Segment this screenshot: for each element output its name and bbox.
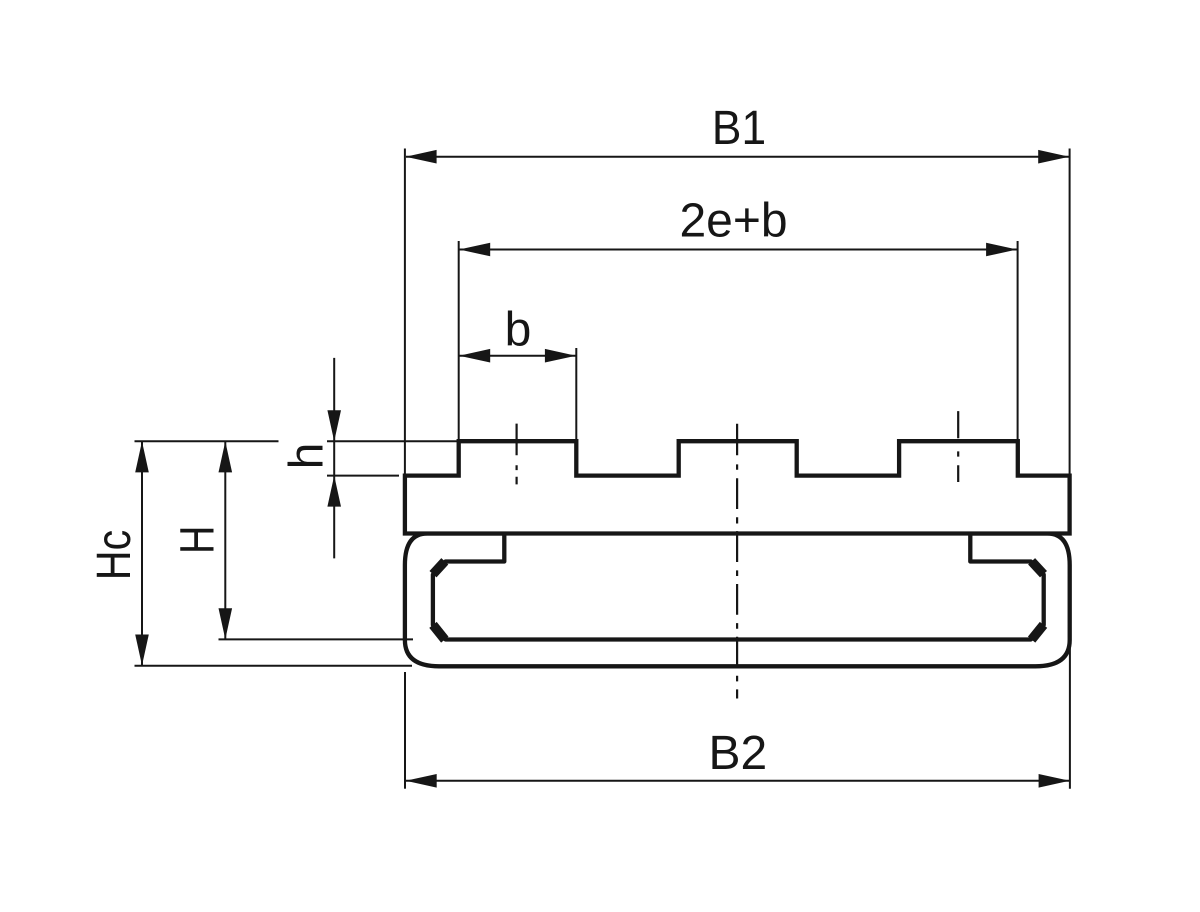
channel inner fillet wedge top-left bbox=[433, 561, 445, 574]
dimension 2e+b arrowhead right bbox=[986, 243, 1017, 257]
dimension H extension line bottom bbox=[219, 638, 414, 640]
centerline middle (tooth 2 / profile axis) bbox=[736, 424, 738, 699]
dimension 2e+b extension line right bbox=[1017, 241, 1019, 441]
channel inner fillet wedge top-right bbox=[1032, 561, 1044, 574]
svg-text:b: b bbox=[505, 304, 532, 357]
dimension B2 line bbox=[406, 780, 1069, 782]
guide profile body with three teeth bbox=[405, 441, 1070, 533]
dimension 2e+b arrowhead left bbox=[459, 243, 490, 257]
dimension B1 extension line left bbox=[404, 149, 406, 476]
dimension B1 extension line right bbox=[1069, 149, 1071, 476]
centerline tooth 3 bbox=[957, 411, 959, 482]
dimension h extension line bottom bbox=[327, 475, 399, 477]
dimension H arrowhead bottom bbox=[219, 608, 233, 639]
dimension h extension line top bbox=[327, 440, 459, 442]
dimension h line bbox=[333, 358, 335, 559]
dimension Hc extension line top bbox=[135, 440, 279, 442]
dimension Hc arrowhead bottom bbox=[135, 635, 149, 666]
dimension b arrowhead right bbox=[545, 349, 576, 363]
dimension B1 arrowhead right bbox=[1038, 150, 1069, 164]
steel C-channel cross-section outline bbox=[405, 534, 1070, 667]
dimension H arrowhead top bbox=[219, 441, 233, 472]
dimension b line bbox=[459, 355, 576, 357]
svg-text:H: H bbox=[171, 526, 225, 554]
dimension 2e+b extension line left bbox=[458, 241, 460, 441]
svg-text:B2: B2 bbox=[708, 727, 767, 780]
dimension B2 arrowhead right bbox=[1039, 774, 1070, 788]
dimension B2 extension line right bbox=[1069, 643, 1071, 789]
dimension h arrowhead bottom bbox=[327, 476, 341, 507]
channel inner fillet wedge bottom-right bbox=[1032, 625, 1044, 640]
svg-text:h: h bbox=[280, 443, 333, 470]
dimension B2 arrowhead left bbox=[406, 774, 437, 788]
channel inner fillet wedge bottom-left bbox=[433, 625, 445, 640]
dimension B2 extension line left bbox=[404, 672, 406, 789]
dimension b arrowhead left bbox=[459, 349, 490, 363]
svg-text:Hc: Hc bbox=[87, 530, 141, 580]
dimension B1 arrowhead left bbox=[406, 150, 437, 164]
dimension H line bbox=[224, 442, 226, 639]
svg-text:2e+b: 2e+b bbox=[679, 195, 787, 248]
dimension b extension line right bbox=[575, 348, 577, 441]
svg-text:B1: B1 bbox=[712, 100, 766, 154]
dimension B1 line bbox=[406, 156, 1069, 158]
dimension 2e+b line bbox=[459, 249, 1017, 251]
dimension Hc extension line bottom bbox=[135, 665, 413, 667]
dimension Hc arrowhead top bbox=[135, 441, 149, 472]
dimension h arrowhead top bbox=[327, 410, 341, 441]
centerline tooth 1 bbox=[515, 424, 517, 485]
dimension Hc line bbox=[141, 442, 143, 665]
